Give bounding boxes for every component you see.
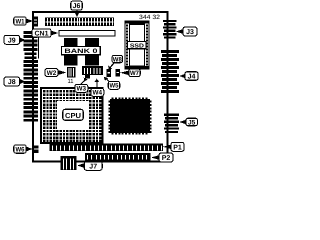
svg-text:BANK 0: BANK 0	[64, 48, 98, 55]
svg-text:W5: W5	[110, 83, 119, 90]
svg-text:J3: J3	[186, 29, 194, 36]
svg-text:11: 11	[68, 78, 75, 85]
svg-text:W7: W7	[130, 70, 139, 77]
svg-text:W6: W6	[16, 146, 25, 153]
svg-text:P2: P2	[162, 155, 171, 162]
svg-text:344 32: 344 32	[139, 14, 161, 21]
svg-text:J4: J4	[188, 74, 196, 81]
svg-text:J7: J7	[89, 164, 97, 171]
svg-text:W3: W3	[77, 86, 87, 93]
svg-text:CN1: CN1	[35, 30, 49, 37]
svg-text:J8: J8	[8, 79, 16, 86]
svg-text:W8: W8	[113, 56, 122, 63]
svg-text:P1: P1	[173, 144, 182, 151]
svg-text:W1: W1	[16, 18, 25, 25]
svg-text:W4: W4	[93, 90, 103, 97]
svg-text:J5: J5	[188, 119, 196, 126]
svg-text:CPU: CPU	[65, 111, 81, 120]
svg-text:J9: J9	[8, 37, 16, 44]
svg-text:J6: J6	[73, 3, 81, 10]
svg-text:W2: W2	[47, 70, 57, 77]
